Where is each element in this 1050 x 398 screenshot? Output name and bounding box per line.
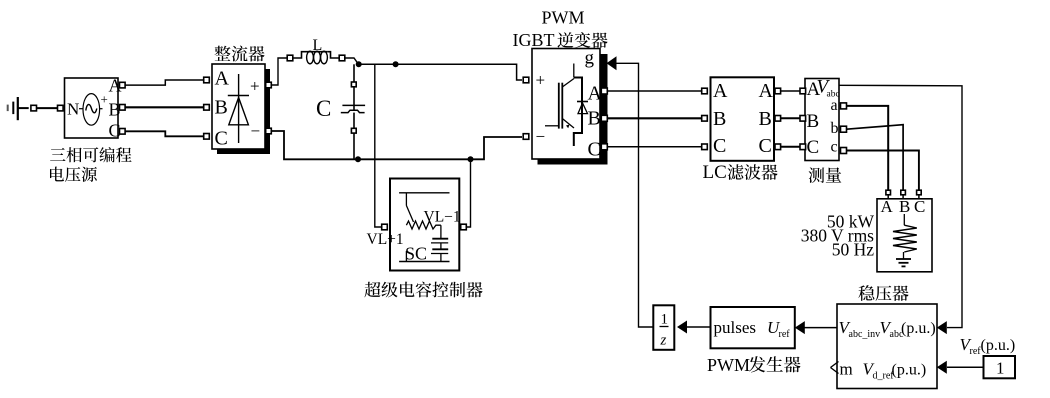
svg-text:A: A [215, 68, 230, 90]
supercap left port VL+1 [382, 224, 388, 230]
svg-text:b: b [831, 120, 839, 137]
label 超级电容控制器 [364, 282, 482, 298]
svg-text:−: − [536, 127, 546, 146]
label VL-1 [424, 209, 461, 226]
load terminal C [917, 190, 922, 199]
svg-text:ref: ref [779, 329, 791, 340]
svg-text:+: + [250, 77, 260, 96]
node dot 2 [393, 61, 399, 67]
svg-text:N: N [67, 100, 79, 119]
svg-text:A: A [759, 80, 774, 102]
regulator input arrow bottom [937, 361, 947, 374]
ground port [31, 105, 37, 111]
label PWM发生器 [707, 355, 801, 375]
wire L to DC rail [345, 58, 364, 64]
svg-text:pulses: pulses [714, 318, 757, 337]
meas port C [800, 144, 806, 150]
capacitor C port bottom [351, 128, 356, 133]
svg-text:C: C [914, 197, 925, 216]
capacitor C branch wire top [353, 64, 355, 109]
meas port c [841, 148, 847, 154]
svg-text:A: A [881, 197, 894, 216]
regulator m output arrow [831, 362, 839, 374]
wire to supercap left [375, 64, 381, 227]
LC port B out [775, 116, 781, 122]
meas port B [800, 116, 806, 122]
label 整流器 [214, 46, 264, 62]
svg-text:B: B [807, 111, 820, 132]
label 380 V rms [801, 226, 874, 246]
voltage regulator block [837, 304, 937, 389]
rectifier port + [266, 82, 272, 88]
inductor L right port [339, 55, 345, 61]
label PWM [542, 8, 585, 28]
node dot 3 [355, 156, 361, 162]
wire rectifier+ to L [271, 58, 287, 85]
inverter port + [523, 77, 529, 83]
source port C [120, 129, 126, 135]
LC port C out [775, 144, 781, 150]
svg-text:C: C [215, 128, 228, 150]
wire Vabc to regulator [839, 85, 962, 327]
label VL+1 [367, 231, 404, 248]
svg-text:C: C [713, 135, 726, 157]
label L [313, 37, 323, 54]
label Vref(p.u.) [960, 335, 1016, 357]
capacitor C [341, 105, 365, 112]
PWM IGBT inverter block [532, 48, 603, 161]
svg-text:LC: LC [703, 162, 727, 183]
wire supercap right to bus [467, 159, 471, 227]
svg-text:PWM: PWM [542, 8, 585, 28]
wire regulator to PWM gen [804, 327, 837, 329]
inverter shadow [538, 54, 608, 165]
svg-text:50 Hz: 50 Hz [832, 240, 875, 260]
svg-text:1: 1 [996, 359, 1005, 378]
svg-text:+: + [536, 71, 546, 90]
IGBT symbol [545, 64, 588, 147]
label LC滤波器 [703, 162, 778, 183]
label IGBT逆变器 [513, 30, 608, 50]
LC port C in [702, 144, 708, 150]
three-phase programmable voltage source block V1 [65, 76, 122, 141]
svg-text:a: a [831, 97, 838, 114]
wire phase B [125, 106, 204, 108]
load resistor symbol [893, 214, 917, 266]
wire ground to source N [36, 107, 58, 109]
svg-text:B: B [899, 197, 910, 216]
source N port [58, 105, 64, 111]
label 三相可编程 电压源 [50, 147, 132, 182]
svg-text:(p.u.): (p.u.) [901, 320, 936, 337]
wire phase A [125, 80, 204, 85]
LC port A out [775, 88, 781, 94]
source port A [120, 82, 126, 88]
wire inverter B to LC [607, 117, 702, 119]
wire LC A to meas [781, 90, 801, 92]
svg-text:−: − [251, 122, 261, 141]
wire phase C [125, 131, 204, 136]
wire inverter A to LC [607, 90, 702, 92]
capacitor C port top [351, 82, 356, 87]
inverter port B [601, 115, 607, 121]
meas port a [841, 103, 847, 109]
wire inverter C to LC [607, 146, 702, 148]
svg-text:C: C [588, 139, 601, 161]
wire a to load [847, 106, 889, 191]
PWM generator block [711, 307, 795, 348]
inverter port - [523, 134, 529, 140]
LC port B in [702, 116, 708, 122]
measurement block [805, 77, 840, 161]
svg-text:VL−1: VL−1 [424, 209, 461, 226]
DC- bus [271, 131, 522, 159]
svg-text:abc_inv: abc_inv [849, 329, 881, 340]
rectifier shadow [217, 69, 270, 154]
svg-text:SC: SC [405, 244, 427, 264]
ground [8, 97, 29, 120]
label SC [405, 244, 427, 264]
svg-text:z: z [660, 333, 667, 349]
unit delay input arrow [677, 321, 687, 334]
rectifier block [212, 64, 265, 150]
svg-text:C: C [316, 96, 331, 121]
load block [877, 197, 932, 272]
svg-text:m: m [840, 360, 853, 379]
svg-text:A: A [713, 80, 728, 102]
svg-text:(p.u.): (p.u.) [981, 337, 1016, 354]
wire constant to regulator [947, 366, 984, 368]
rectifier port A [204, 77, 210, 83]
capacitor C branch wire bottom [353, 113, 355, 160]
PWM generator input arrow [795, 321, 805, 334]
svg-text:B: B [215, 97, 228, 119]
svg-text:VL+1: VL+1 [367, 231, 404, 248]
svg-text:B: B [588, 108, 601, 130]
supercapacitor controller block [390, 179, 459, 271]
svg-text:B: B [759, 108, 772, 130]
inductor L left port [287, 55, 293, 61]
svg-text:C: C [759, 135, 772, 157]
node dot 1 [356, 61, 362, 67]
supercap right port VL-1 [461, 224, 467, 230]
inverter g input arrow [607, 56, 617, 70]
node dot 4 [468, 156, 474, 162]
svg-text:A: A [588, 83, 603, 105]
unit delay block 1/z [653, 305, 674, 350]
label 测量 [809, 167, 842, 183]
label 稳压器 [858, 285, 908, 301]
constant block 1 [984, 356, 1016, 378]
rectifier diode symbol [228, 74, 249, 143]
inductor L [293, 51, 340, 64]
svg-text:c: c [831, 139, 838, 156]
wire c to load [847, 151, 919, 191]
svg-text:PWM: PWM [707, 355, 750, 375]
regulator input arrow top [937, 321, 947, 334]
rectifier port B [204, 105, 210, 111]
svg-text:B: B [713, 108, 726, 130]
LC filter block [711, 77, 775, 161]
svg-text:ref: ref [970, 346, 982, 357]
meas port b [841, 126, 847, 132]
wire LC B to meas [781, 117, 801, 119]
supercap interior circuit [399, 193, 449, 262]
svg-text:IGBT: IGBT [513, 30, 555, 50]
label 50 kW [827, 212, 875, 232]
source port B [120, 105, 126, 111]
inverter port A [601, 88, 607, 94]
DC+ rail [359, 64, 522, 80]
svg-text:C: C [807, 137, 820, 158]
label C [316, 96, 331, 121]
meas port A [800, 88, 806, 94]
load terminal B [901, 190, 906, 199]
svg-text:+: + [101, 92, 108, 107]
svg-text:(p.u.): (p.u.) [892, 362, 927, 379]
LC port A in [702, 88, 708, 94]
wire delay to g [616, 63, 653, 327]
label 50 Hz [832, 240, 875, 260]
inverter port C [601, 144, 607, 150]
load terminal A [886, 190, 891, 199]
wire b to load [847, 125, 904, 191]
svg-text:1: 1 [661, 312, 669, 328]
wire LC C to meas [781, 146, 801, 148]
svg-text:g: g [585, 48, 595, 69]
rectifier port - [266, 128, 272, 134]
svg-text:L: L [313, 37, 323, 54]
wire PWM gen to delay [687, 326, 711, 328]
rectifier port C [204, 134, 210, 140]
